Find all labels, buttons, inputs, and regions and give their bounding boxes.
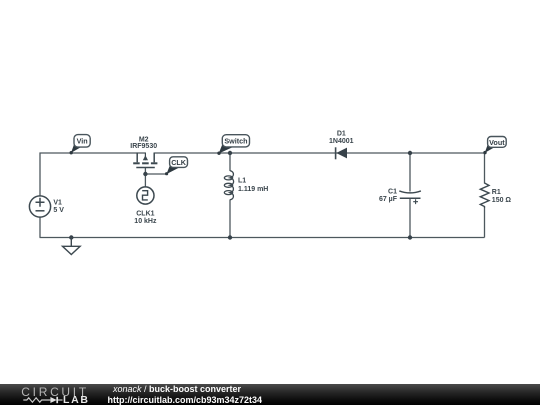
svg-text:Vout: Vout <box>489 138 505 147</box>
svg-text:150 Ω: 150 Ω <box>492 197 512 204</box>
svg-text:67 µF: 67 µF <box>379 196 398 203</box>
svg-text:CLK1: CLK1 <box>136 211 154 218</box>
svg-text:Switch: Switch <box>224 137 247 146</box>
svg-text:D1: D1 <box>337 131 346 138</box>
svg-text:Vin: Vin <box>77 137 88 146</box>
svg-text:5 V: 5 V <box>53 207 64 214</box>
svg-text:10 kHz: 10 kHz <box>134 218 157 225</box>
svg-text:C1: C1 <box>388 189 397 196</box>
svg-text:IRF9530: IRF9530 <box>130 143 157 150</box>
svg-text:R1: R1 <box>492 189 501 196</box>
svg-text:V1: V1 <box>53 200 62 207</box>
svg-text:1N4001: 1N4001 <box>329 138 354 145</box>
svg-text:L1: L1 <box>238 178 246 185</box>
svg-text:CLK: CLK <box>171 158 187 167</box>
svg-text:LAB: LAB <box>63 394 90 405</box>
svg-text:1.119 mH: 1.119 mH <box>238 186 268 193</box>
